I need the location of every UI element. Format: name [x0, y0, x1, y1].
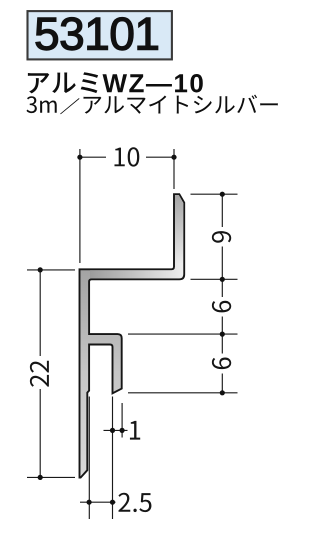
dim 9 value label (rotated)	[212, 231, 231, 243]
dim 2.5: dimension line	[80, 501, 116, 503]
dim 22: bottom extension line	[27, 476, 75, 478]
dim 2.5 value label	[118, 493, 151, 512]
title text アルミWZ-10	[28, 72, 203, 93]
dim 10: value label	[114, 147, 139, 166]
dim 1 value label	[130, 421, 140, 440]
dim 22 value label (rotated)	[30, 361, 49, 387]
dim 1: dimension line	[104, 429, 128, 431]
dim 9/6/6: extension line at top arm bottom	[191, 278, 238, 280]
part number box	[28, 11, 172, 59]
dim 2.5: dots	[87, 500, 116, 505]
dim 9/6/6: vertical dimension line	[221, 194, 223, 393]
dim 10: right dot	[171, 155, 176, 160]
profile top arm + flange shading overlay	[90, 195, 183, 278]
dim 6 lower value label (rotated)	[212, 358, 231, 370]
subtitle text 3m/アルマイトシルバー	[26, 95, 277, 115]
dim 1: dots	[110, 428, 125, 433]
dim 10: left dot	[77, 155, 82, 160]
dim 2.5: left extension line (web right face)	[88, 397, 90, 520]
dim 9/6/6: extension line at hook bottom	[128, 392, 238, 394]
dim 9/6/6: extension line at flange top	[191, 193, 238, 195]
dim 10: dimension line	[80, 156, 174, 158]
profile flange top shading overlay	[175, 195, 183, 263]
profile cross-section body (aluminium WZ-10 joiner)	[80, 194, 185, 477]
part number 53101	[36, 17, 158, 50]
dim 6 upper value label (rotated)	[212, 301, 231, 313]
dim 22: dots	[38, 267, 43, 480]
shared extension line (hook left face / web offset)	[112, 397, 114, 520]
dim 9/6/6: dots	[220, 192, 225, 396]
dim 1: right extension line (hook right face)	[121, 403, 123, 438]
dim 10: right extension line (flange left face)	[173, 149, 175, 189]
dim 10: left extension line (web left face)	[79, 149, 81, 263]
dim 22: vertical dimension line	[39, 270, 41, 478]
dim 9/6/6: extension line at hook arm top	[128, 333, 238, 335]
dim 22: top extension line	[27, 269, 75, 271]
